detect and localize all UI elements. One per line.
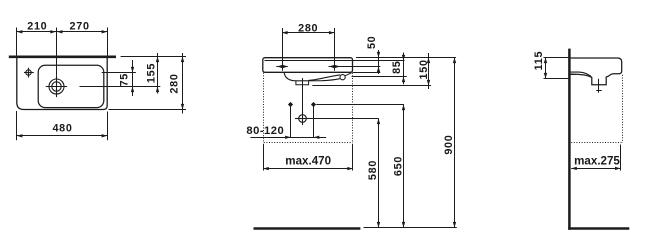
side view: dim 115	[533, 51, 547, 79]
front view: hook to body line	[345, 73, 352, 76]
front view: dim 580	[367, 118, 380, 228]
plan view: extension line middle (to tap)	[56, 28, 58, 76]
side view: drain axis	[598, 79, 600, 93]
front view: bowl hook circle	[340, 75, 345, 80]
plan view: dimension line 480	[17, 135, 107, 137]
front view: dim 650	[393, 104, 405, 227]
side view: wall line	[568, 49, 571, 230]
front view: dim 900	[443, 57, 456, 227]
front view: extension lines dim 280	[282, 28, 284, 65]
front view: underside witness line to 85-dim	[352, 76, 407, 78]
front view: basin body	[263, 58, 353, 73]
side view: dim 115 witness top	[544, 57, 570, 59]
plan view: back wall thin reference extension to right dims	[121, 56, 186, 58]
front view: drain cross symbol	[295, 111, 309, 125]
svg-text:80-120: 80-120	[246, 125, 284, 137]
svg-text:270: 270	[70, 20, 90, 32]
side view: dimension line max.275	[571, 168, 620, 170]
front view: dimension line 280	[282, 32, 335, 34]
side view: rim deck line	[571, 72, 592, 77]
side view: extension line max.275	[620, 145, 622, 171]
front view: dotted installation zone	[264, 73, 353, 143]
front view: drain witness line to 580-dim	[309, 118, 378, 120]
plan view: tap centre witness line	[80, 86, 161, 88]
front view: floor thin line	[364, 227, 457, 229]
front view: long reference line (150 bottom)	[312, 85, 431, 87]
svg-text:max.470: max.470	[285, 155, 331, 168]
plan view: extension line left for dim 210	[16, 28, 18, 57]
front view: drain marker diamond left	[288, 102, 293, 107]
side view: wall ledge line	[571, 74, 576, 76]
front view: fixing symbol left	[276, 65, 288, 71]
side view: floor thick line	[568, 227, 629, 230]
front view: dim 85	[391, 53, 405, 85]
svg-text:650: 650	[393, 156, 405, 176]
svg-text:50: 50	[366, 36, 378, 49]
svg-text:75: 75	[119, 73, 131, 86]
plan view: dim 155	[145, 53, 159, 94]
plan view: witness line A (75 top)	[102, 72, 136, 74]
front view: drain stub	[296, 81, 309, 85]
plan view: fixing hole symbol	[24, 68, 34, 78]
front view: top reference line	[356, 57, 456, 59]
plan view: extension lines for dim 480	[16, 111, 18, 140]
front view: dimension line max.470	[263, 168, 353, 170]
plan view: tap hole symbol	[46, 76, 67, 97]
plan view: inner bowl rim	[38, 65, 104, 107]
svg-text:85: 85	[391, 60, 403, 73]
front view: fixing witness line to 50-dim	[329, 66, 381, 68]
front view: diamond witness line to 650-dim	[316, 104, 404, 106]
svg-text:115: 115	[533, 51, 545, 71]
svg-text:480: 480	[52, 123, 72, 135]
front view: dim 150	[418, 53, 430, 89]
plan view: outer basin outline	[17, 57, 107, 109]
svg-text:150: 150	[418, 59, 430, 79]
side view: dotted max zone horizontal	[571, 142, 622, 144]
front view: drain centre line	[302, 78, 304, 111]
side view: dim 115 witness bottom	[544, 78, 570, 80]
svg-text:280: 280	[168, 73, 180, 93]
side view: dotted max zone vertical	[622, 75, 624, 143]
svg-text:280: 280	[298, 22, 318, 34]
side view: drain axis tick	[596, 90, 602, 92]
svg-text:155: 155	[145, 63, 157, 83]
plan view: dim 75	[119, 60, 135, 96]
svg-text:900: 900	[443, 135, 455, 155]
front view: body bottom witness	[353, 72, 381, 74]
front view: drain marker diamond right	[311, 102, 316, 107]
plan view: extension line right	[107, 28, 109, 56]
front view: right diamond drop line	[313, 106, 315, 137]
front view: bowl interior slope line	[309, 75, 341, 81]
plan view: dim 280	[168, 53, 184, 114]
plan view: dimension line 210/270	[17, 31, 107, 33]
front view: floor thick line	[254, 227, 361, 230]
plan view: back wall thick line	[9, 55, 116, 58]
svg-text:580: 580	[367, 160, 379, 180]
front view: dim 80-120 line	[250, 137, 326, 139]
front view: dim 50	[366, 36, 380, 74]
front view: bowl underside profile	[284, 73, 340, 81]
svg-text:max.275: max.275	[574, 155, 620, 168]
front view: extension lines max.470	[263, 144, 265, 171]
front view: fixing symbol right	[329, 65, 340, 71]
plan view: bottom witness line for 280	[109, 109, 187, 111]
svg-text:210: 210	[27, 20, 47, 32]
front view: rim inner line	[265, 60, 405, 62]
front view: left diamond drop line	[290, 106, 292, 137]
side view: basin profile outer	[571, 58, 622, 85]
